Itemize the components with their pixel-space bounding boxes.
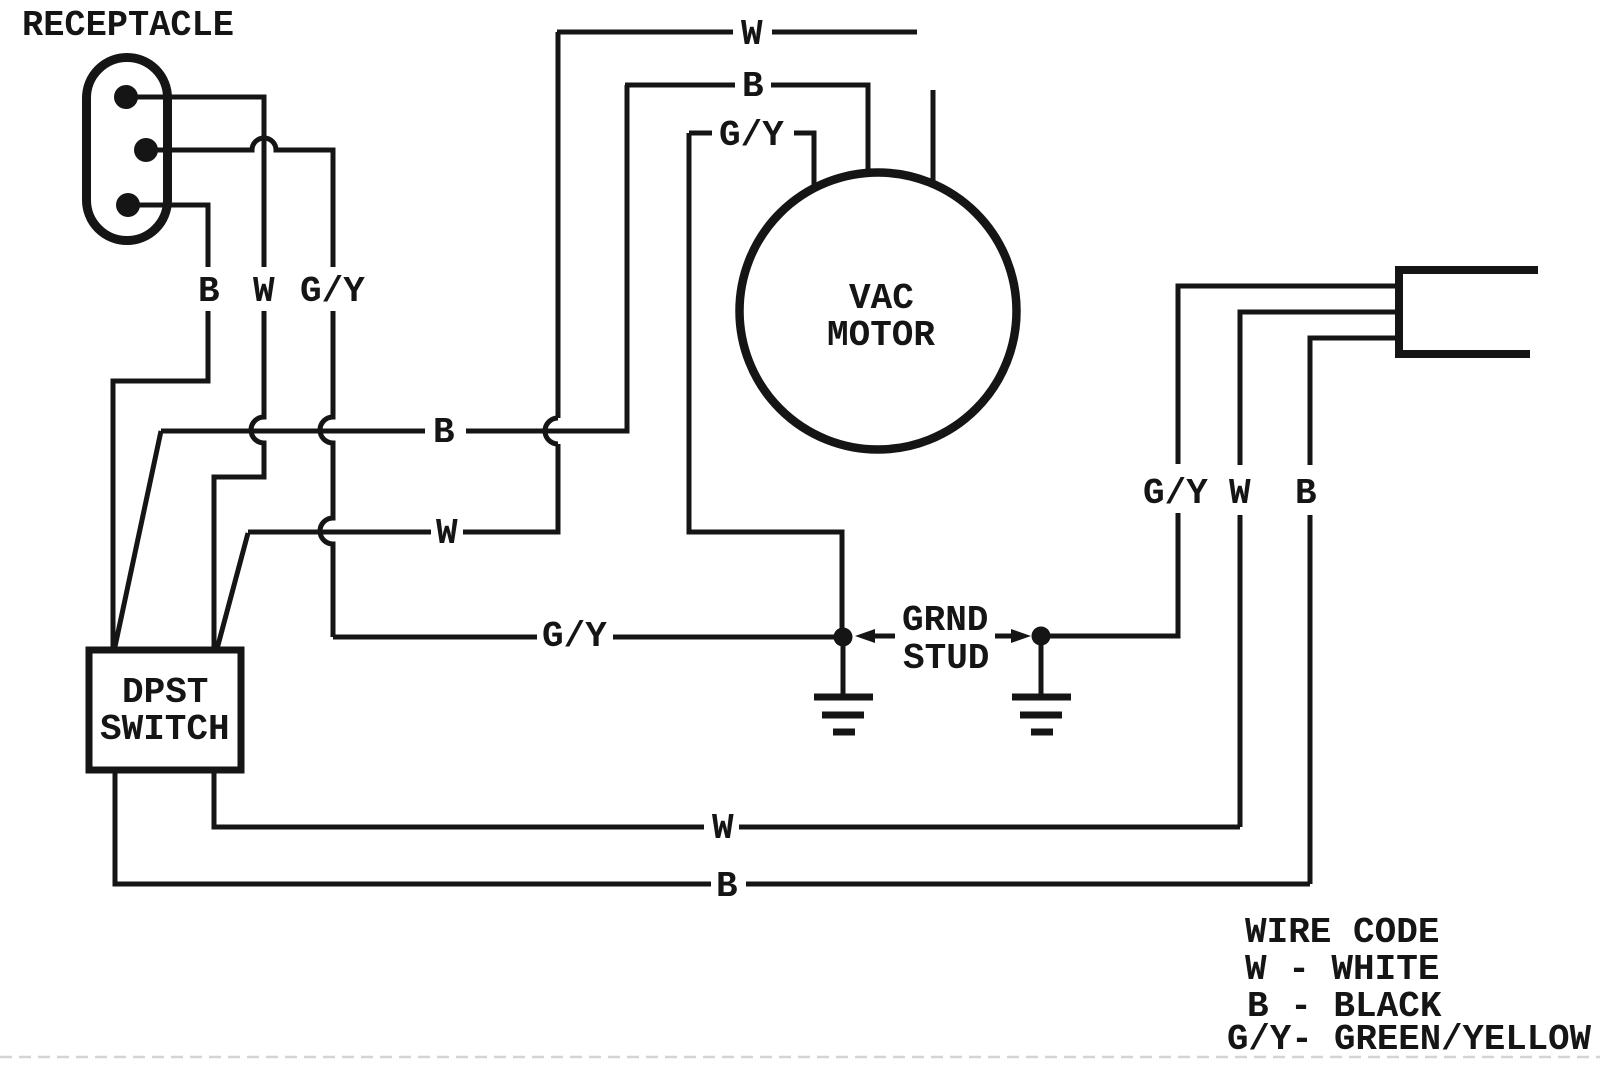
- svg-text:W: W: [741, 14, 763, 55]
- wire G/Y bus from label to ground stud 1: [613, 635, 836, 640]
- receptacle prong dot bottom: [116, 193, 140, 217]
- wire B bus horizontal right of label rising to motor B line: [466, 85, 627, 431]
- wire motor B line right of label dropping to motor: [771, 85, 868, 172]
- wire B right cable riser above label into connector: [1310, 338, 1395, 465]
- wire W right cable riser above label into connector: [1240, 312, 1395, 465]
- svg-text:B: B: [742, 66, 764, 107]
- svg-text:B: B: [716, 866, 738, 907]
- wire W vertical below label with hop over B bus: [214, 311, 264, 651]
- svg-text:W - WHITE: W - WHITE: [1245, 949, 1439, 990]
- wire W bus horizontal right of label rising with hop over B bus: [463, 32, 558, 532]
- wire G/Y from ground stud 2 to right cable: [1041, 513, 1178, 636]
- wire W from top prong to vertical drop: [126, 97, 264, 267]
- ground stud 2 lead: [1039, 639, 1044, 694]
- wire W from switch bottom right of label: [214, 769, 704, 827]
- receptacle prong dot top: [114, 85, 138, 109]
- ground stud 2 junction dot: [1032, 627, 1051, 646]
- receptacle prong dot middle: [134, 138, 158, 162]
- wire G/Y from motor line down and over to ground stud 1: [689, 133, 842, 630]
- svg-text:B: B: [198, 271, 220, 312]
- wire W bus vertical stub into switch: [212, 477, 217, 651]
- arrow left pointing to ground stud 1: [873, 634, 895, 639]
- svg-text:SWITCH: SWITCH: [100, 709, 230, 750]
- wire B bottom run right of label: [746, 882, 1310, 887]
- wire B from switch bottom left of label: [115, 769, 711, 884]
- svg-text:W: W: [436, 513, 458, 554]
- wire motor W line right of label: [772, 30, 917, 35]
- ground stud 1 lead: [841, 640, 846, 694]
- svg-text:W: W: [712, 808, 734, 849]
- svg-text:G/Y: G/Y: [542, 616, 607, 657]
- svg-text:W: W: [253, 271, 275, 312]
- ground symbol 2: [1012, 697, 1071, 732]
- svg-text:G/Y- GREEN/YELLOW: G/Y- GREEN/YELLOW: [1227, 1019, 1591, 1060]
- svg-text:VAC: VAC: [849, 278, 914, 319]
- wire W right cable riser below label: [1238, 515, 1243, 827]
- svg-text:DPST: DPST: [122, 672, 208, 713]
- wire W bottom run right of label: [739, 825, 1240, 830]
- wire G/Y from middle prong with hop over W wire: [146, 138, 333, 267]
- svg-text:B: B: [1295, 473, 1317, 514]
- wire B right cable riser below label: [1308, 515, 1313, 884]
- svg-text:G/Y: G/Y: [719, 115, 784, 156]
- wire W bus diagonal from switch pole 2: [217, 533, 248, 649]
- svg-text:G/Y: G/Y: [300, 271, 365, 312]
- svg-text:GRND: GRND: [902, 600, 988, 641]
- ground symbol 1: [814, 697, 873, 732]
- wire motor B line left of label: [625, 83, 735, 88]
- wire B bus horizontal left of label: [161, 429, 425, 434]
- wire motor W line left of label: [557, 30, 733, 35]
- hop of W riser over B bus: [545, 418, 558, 444]
- wire W bus horizontal left of label: [248, 530, 431, 535]
- wire G/Y vertical below label with hops over B and W buses: [320, 311, 333, 637]
- svg-text:WIRE CODE: WIRE CODE: [1245, 912, 1439, 953]
- wire W stub into motor: [931, 90, 936, 185]
- svg-text:W: W: [1229, 473, 1251, 514]
- svg-text:STUD: STUD: [903, 638, 989, 679]
- wire B vertical below label stepping left to switch: [113, 311, 208, 651]
- wire motor G/Y line left of label: [689, 131, 712, 136]
- wire G/Y bus from receptacle leg to label: [333, 635, 537, 640]
- ground stud 1 junction dot: [834, 628, 853, 647]
- svg-text:RECEPTACLE: RECEPTACLE: [22, 5, 234, 46]
- arrow right pointing to ground stud 2: [995, 634, 1013, 639]
- wire G/Y right cable riser above label into connector: [1178, 286, 1395, 464]
- VAC motor circle: [740, 173, 1017, 450]
- wire motor G/Y line right of label dropping to motor: [794, 133, 814, 186]
- svg-text:G/Y: G/Y: [1143, 473, 1208, 514]
- svg-text:B: B: [433, 412, 455, 453]
- connector shell right: [1399, 270, 1538, 354]
- wire B bus diagonal from switch pole 1: [115, 431, 162, 649]
- receptacle J1 body: [87, 58, 168, 241]
- scan artifact bottom rule: [0, 1056, 1600, 1059]
- DPST switch box: [89, 650, 241, 770]
- svg-text:MOTOR: MOTOR: [827, 315, 935, 356]
- wire B from bottom prong to vertical drop: [128, 205, 208, 267]
